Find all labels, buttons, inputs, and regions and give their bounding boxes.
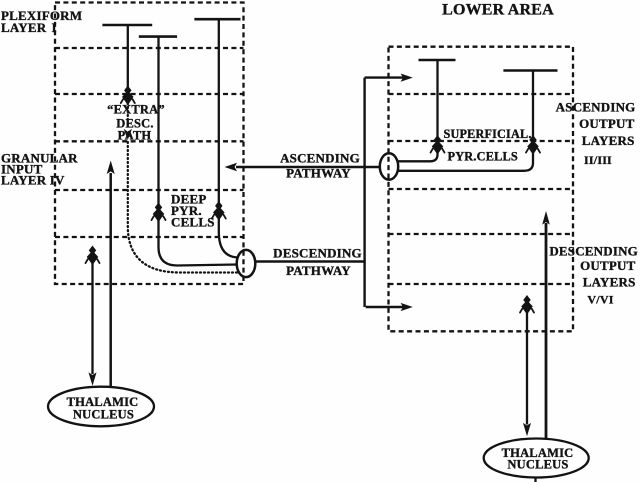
svg-text:OUTPUT: OUTPUT	[579, 116, 635, 131]
svg-text:LAYERS: LAYERS	[583, 275, 636, 290]
descending branch wire into lower area layer VI	[366, 306, 404, 308]
svg-text:PYR.CELLS: PYR.CELLS	[448, 149, 518, 163]
svg-text:DESCENDING: DESCENDING	[549, 244, 638, 259]
pyramidal cell P1 apical tuft bar	[102, 24, 152, 27]
superficial pyramidal cell S2 apical tuft bar	[503, 69, 557, 72]
svg-text:OUTPUT: OUTPUT	[580, 258, 636, 273]
higher area layer line y143	[55, 140, 244, 142]
svg-text:LOWER AREA: LOWER AREA	[442, 2, 554, 19]
neuron soma glyph (superficial cell S2)	[526, 137, 540, 154]
svg-text:NUCLEUS: NUCLEUS	[507, 458, 568, 472]
thalamic nucleus ellipse (left)	[48, 387, 154, 427]
higher area layer line y94	[55, 93, 244, 95]
svg-text:DESCENDING: DESCENDING	[273, 245, 362, 260]
svg-text:SUPERFICIAL.: SUPERFICIAL.	[444, 127, 532, 141]
svg-text:ASCENDING: ASCENDING	[280, 150, 360, 165]
descending pathway vertical trunk wire	[363, 78, 365, 307]
neuron soma glyph (deep pyramidal cell P3)	[212, 203, 226, 220]
svg-text:I: I	[52, 20, 57, 35]
neuron soma glyph (deep pyramidal cell P2)	[152, 204, 166, 221]
descending output ellipse E1	[237, 250, 256, 277]
thalamocortical wire (thalamus to higher area layer IV)	[109, 173, 112, 387]
corticothalamic wire (higher area layer VI to thalamus)	[91, 262, 93, 374]
pyramidal cell P3 apical tuft bar	[194, 18, 240, 21]
neuron soma glyph ("extra" path cell)	[121, 87, 135, 104]
descending pathway horizontal wire	[255, 260, 365, 262]
svg-text:ASCENDING: ASCENDING	[556, 99, 636, 114]
svg-text:LAYER IV: LAYER IV	[1, 173, 65, 188]
thalamocortical wire (thalamus to lower area layer IV)	[545, 223, 548, 438]
pyramidal cell P2 axon to output ellipse	[159, 218, 238, 266]
lower area layer line y189	[389, 188, 574, 190]
lower area cortical box (dashed border)	[389, 47, 574, 332]
higher area layer line y48	[55, 47, 244, 49]
pyramidal cell P3 axon to output ellipse	[219, 216, 238, 258]
svg-text:“EXTRA”: “EXTRA”	[107, 102, 165, 116]
ascending origin ellipse E2	[380, 153, 398, 179]
svg-text:LAYERS: LAYERS	[582, 133, 635, 148]
lower area layer line y284	[389, 283, 574, 285]
superficial pyramidal cell S1 apical dendrite	[436, 60, 438, 138]
lower area layer line y233	[389, 233, 574, 235]
svg-text:PATHWAY: PATHWAY	[286, 263, 351, 278]
lower area layer line y94	[389, 93, 574, 95]
neuron soma glyph (higher area layer VI cell)	[86, 247, 100, 264]
arrowhead into lower area layer I (descending)	[401, 74, 413, 82]
superficial cell S2 axon into ellipse E2	[399, 151, 534, 171]
pyramidal cell P1 apical dendrite	[127, 25, 129, 89]
pyramidal cell P2 apical tuft bar	[139, 35, 177, 38]
arrowhead down on "extra" desc path	[124, 129, 132, 140]
superficial pyramidal cell S1 apical tuft bar	[419, 59, 456, 62]
corticothalamic wire (lower area layer VI to thalamus)	[526, 313, 528, 425]
superficial pyramidal cell S2 apical dendrite	[532, 71, 534, 138]
higher area cortical box (dashed border)	[55, 3, 244, 285]
svg-text:LAYER: LAYER	[1, 20, 47, 35]
neuron soma glyph (superficial cell S1)	[431, 137, 445, 154]
"extra" descending dotted path	[128, 142, 237, 273]
svg-text:II/III: II/III	[584, 153, 612, 167]
descending branch wire into lower area layer I	[365, 76, 404, 78]
higher area layer line y237	[55, 236, 244, 238]
svg-text:PATH: PATH	[118, 128, 152, 142]
"extra" descending dotted path (upper segment through label)	[127, 103, 129, 127]
superficial cell S1 axon into ellipse E2	[399, 151, 438, 161]
arrowhead up into lower area layer IV (thalamocortical)	[542, 211, 550, 225]
stub wire below right thalamic nucleus	[534, 477, 536, 482]
svg-text:PATHWAY: PATHWAY	[286, 166, 351, 181]
lower area layer line y141	[389, 140, 574, 142]
arrowhead into lower area layer VI (descending)	[401, 303, 413, 311]
arrowhead into higher area layer IV (ascending pathway)	[225, 163, 238, 171]
thalamic nucleus ellipse (right)	[484, 439, 589, 478]
svg-text:CELLS: CELLS	[171, 215, 215, 230]
arrowhead up into higher area layer IV (thalamocortical)	[107, 161, 115, 175]
pyramidal cell P2 apical dendrite	[157, 37, 159, 205]
ascending pathway wire (ellipse E2 to higher area layer IV)	[236, 166, 380, 168]
higher area layer line y190	[55, 189, 244, 191]
arrowhead down into right thalamic nucleus	[523, 423, 531, 436]
svg-text:NUCLEUS: NUCLEUS	[73, 407, 134, 421]
arrowhead down into left thalamic nucleus	[89, 372, 97, 385]
neuron soma glyph (lower area layer VI cell)	[520, 297, 534, 314]
pyramidal cell P3 apical dendrite	[218, 19, 220, 203]
svg-text:V/VI: V/VI	[587, 292, 613, 306]
